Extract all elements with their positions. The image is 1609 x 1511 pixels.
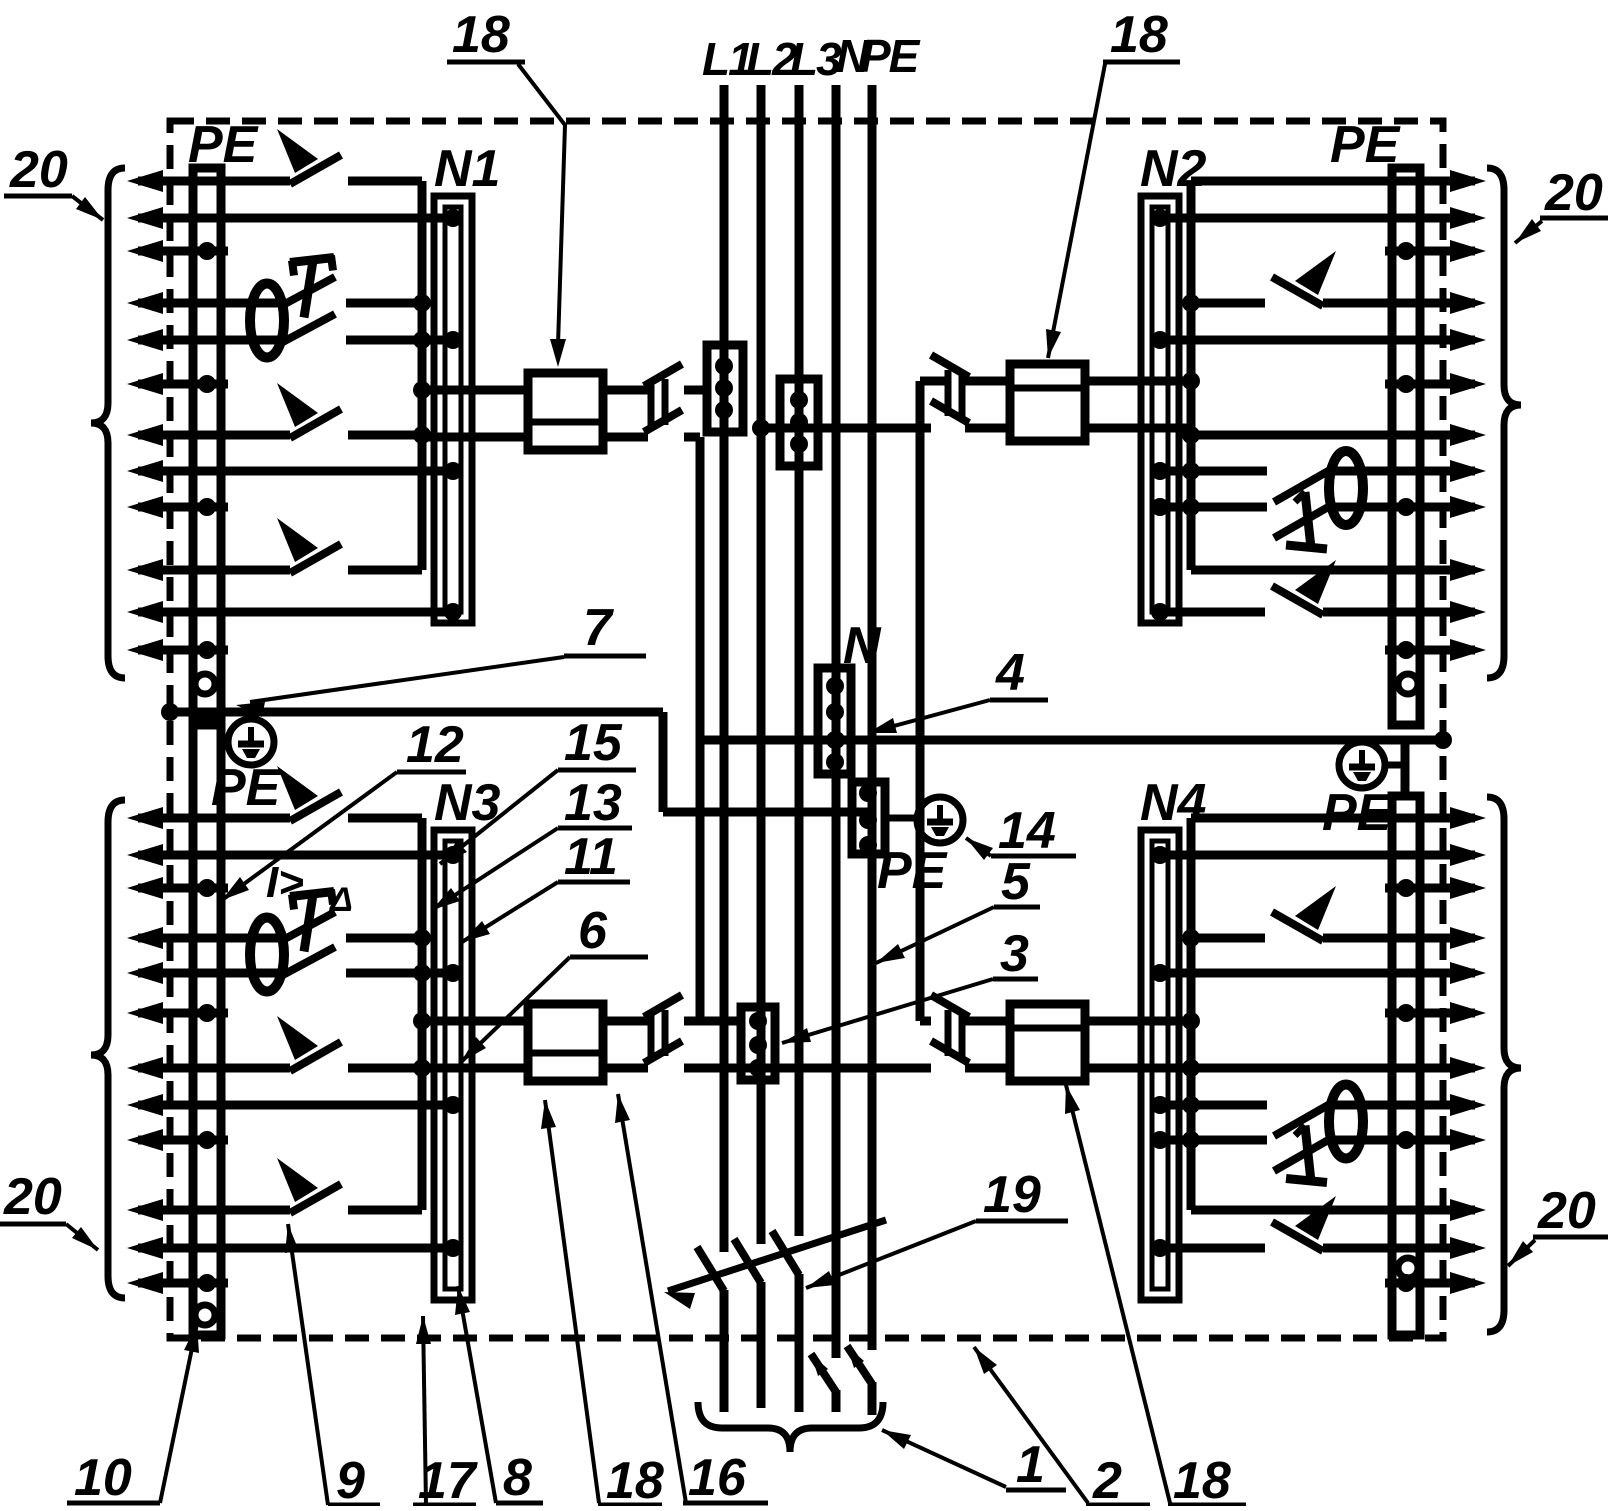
circuit breaker switch on row y=435 (top-left): [290, 409, 341, 438]
PE distribution block: [852, 782, 885, 854]
svg-text:3: 3: [1000, 925, 1029, 983]
brace bottom-right outgoing group: [1487, 797, 1521, 1332]
outgoing line wire row y=650 (top-right): [1450, 639, 1486, 661]
wire: bottom-left plug to bottom terminal block: [684, 1017, 741, 1026]
outgoing line wire row y=435 (top-right): [1450, 424, 1486, 446]
main switch blade on row y=340 (top-left): [281, 314, 335, 343]
outgoing line wire row y=1210 (bottom-right): [1450, 1199, 1486, 1221]
terminal block bottom (on L2): [741, 1007, 775, 1080]
detachable connector (top-left): [644, 364, 682, 386]
outgoing line wire row y=1013 (bottom-left): [127, 1002, 163, 1024]
switch linkage bar with handle arrow: [668, 1220, 886, 1291]
circuit breaker switch on row y=181 (top-left): [290, 155, 341, 184]
wire: left plug to L1 terminal block: [684, 386, 707, 395]
PE disconnect blade: [847, 1346, 872, 1384]
svg-text:Δ: Δ: [328, 881, 353, 919]
outgoing line wire row y=1283 (bottom-right): [1450, 1272, 1486, 1294]
svg-text:5: 5: [1001, 853, 1031, 911]
main switch blade on row y=938 (bottom-left): [281, 912, 335, 941]
main incoming switch blades (item 19): [697, 1247, 724, 1291]
detachable connector (top-right): [931, 355, 969, 377]
box feed wires (bottom-right): [1085, 1017, 1191, 1026]
connection box 18 (bottom-right): [1010, 1004, 1085, 1081]
bus L1 vertical: [720, 85, 729, 1252]
main switch blade on row y=973 (bottom-left): [281, 947, 335, 976]
outgoing line wire row y=181 (top-left): [127, 170, 163, 192]
connection box 18 (top-right): [1010, 364, 1085, 441]
outgoing line wire row y=1248 (bottom-right): [1450, 1237, 1486, 1259]
svg-text:1: 1: [1016, 1436, 1045, 1494]
svg-text:15: 15: [564, 714, 623, 772]
main switch coupling oval (top-right): [1329, 451, 1363, 525]
svg-text:9: 9: [336, 1452, 365, 1506]
svg-text:18: 18: [606, 1452, 664, 1506]
outgoing line wire row y=303 (top-left): [127, 292, 163, 314]
outgoing line wire row y=251 (top-right): [1450, 240, 1486, 262]
outgoing line wire row y=181 (top-right): [1450, 170, 1486, 192]
main switch blade on row y=1105 (bottom-right): [1274, 1104, 1330, 1136]
outgoing line wire row y=1013 (bottom-right): [1450, 1002, 1486, 1024]
PE riser corner down: [659, 712, 668, 812]
stub PE bar bottom-right up to N wire: [1401, 742, 1410, 796]
outgoing line wire row y=855 (bottom-right): [1450, 844, 1486, 866]
svg-text:12: 12: [406, 716, 464, 774]
svg-text:20: 20: [1544, 164, 1603, 222]
outgoing line wire row y=1283 (bottom-left): [127, 1272, 163, 1294]
svg-text:10: 10: [74, 1449, 132, 1506]
outgoing line wire row y=650 (top-left): [127, 639, 163, 661]
box feed wires (top-right): [1085, 377, 1191, 386]
neutral disconnect blade: [811, 1354, 836, 1392]
outgoing line wire row y=303 (top-right): [1450, 292, 1486, 314]
main switch blade on row y=507 (top-right): [1274, 506, 1330, 538]
brace top-left outgoing group: [91, 168, 125, 678]
svg-text:L1: L1: [702, 33, 752, 85]
PE busbar of bottom-left group panel: [193, 718, 221, 1335]
svg-text:PE: PE: [877, 842, 948, 900]
incoming cable brace (item 1): [698, 1402, 883, 1452]
svg-text:PE: PE: [188, 116, 259, 174]
svg-text:N: N: [843, 617, 882, 675]
outgoing line wire row y=612 (top-right): [1450, 601, 1486, 623]
main switch T-handle (bottom-left): [290, 892, 334, 897]
circuit breaker switch on row y=1248 (bottom-right): [1272, 1222, 1323, 1251]
main switch handle (bottom-right): [1305, 1126, 1311, 1182]
outgoing line wire row y=218 (top-right): [1450, 207, 1486, 229]
neutral busbar N2: [1141, 196, 1179, 623]
box feed wires (bottom-left): [422, 1017, 528, 1026]
outgoing line wire row y=1068 (bottom-right): [1450, 1057, 1486, 1079]
main switch blade on row y=303 (top-left): [281, 277, 335, 306]
svg-text:20: 20: [1537, 1182, 1596, 1240]
wire: N row horizontal across to right side: [700, 736, 1443, 745]
bus L2 vertical: [757, 85, 766, 1244]
outgoing line wire row y=1140 (bottom-right): [1450, 1129, 1486, 1151]
neutral busbar N3: [434, 830, 472, 1300]
phase feeder bus of bottom-left group: [418, 818, 427, 1210]
PE busbar of bottom-right group panel: [1392, 796, 1420, 1335]
outgoing line wire row y=855 (bottom-left): [127, 844, 163, 866]
wire: PE horizontal from top-left PE bar: [163, 708, 663, 717]
phase feeder bus of bottom-right group: [1187, 818, 1196, 1210]
cabinet enclosure dashed border (item 2): [170, 121, 1443, 1338]
wire: lower plug pin corner: [684, 433, 700, 442]
circuit breaker switch on row y=938 (bottom-right): [1272, 912, 1323, 941]
PE busbar of top-left group panel: [193, 168, 221, 725]
circuit breaker switch on row y=1068 (bottom-left): [290, 1042, 341, 1071]
outgoing line wire row y=507 (top-right): [1450, 496, 1486, 518]
wire: PE riser to PE block: [663, 808, 868, 817]
outgoing line wire row y=612 (top-left): [127, 601, 163, 623]
main switch blade on row y=1140 (bottom-right): [1274, 1139, 1330, 1171]
N distribution block: [818, 668, 851, 774]
main switch coupling oval (top-left): [250, 284, 284, 358]
brace bottom-left outgoing group: [91, 800, 125, 1298]
svg-text:N1: N1: [434, 140, 500, 198]
svg-text:11: 11: [564, 828, 618, 886]
svg-text:7: 7: [583, 599, 614, 657]
svg-text:2: 2: [1092, 1452, 1122, 1506]
main switch coupling oval (bottom-left): [250, 918, 284, 992]
svg-text:20: 20: [9, 141, 68, 199]
svg-text:13: 13: [564, 774, 622, 832]
outgoing line wire row y=471 (top-left): [127, 460, 163, 482]
terminal block on L3 (top): [780, 379, 818, 466]
outgoing line wire row y=570 (top-right): [1450, 559, 1486, 581]
phase feeder bus of top-left group: [418, 181, 427, 570]
outgoing line wire row y=938 (bottom-right): [1450, 927, 1486, 949]
outgoing line wire row y=507 (top-left): [127, 496, 163, 518]
outgoing line wire row y=938 (bottom-left): [127, 927, 163, 949]
outgoing line wire row y=1105 (bottom-left): [127, 1094, 163, 1116]
circuit breaker switch on row y=303 (top-right): [1272, 277, 1323, 306]
main switch handle (top-right): [1305, 492, 1311, 548]
svg-text:18: 18: [1173, 1452, 1231, 1506]
svg-text:19: 19: [983, 1166, 1041, 1224]
wire: right riser top stub: [920, 377, 948, 386]
phase feeder bus of top-right group: [1187, 181, 1196, 570]
svg-text:8: 8: [503, 1449, 532, 1506]
vertical riser right of buses: [916, 381, 925, 1021]
svg-text:16: 16: [688, 1449, 747, 1506]
bus PE vertical: [868, 85, 877, 1350]
svg-text:PE: PE: [1322, 784, 1393, 842]
outgoing line wire row y=1068 (bottom-left): [127, 1057, 163, 1079]
outgoing line wire row y=1105 (bottom-right): [1450, 1094, 1486, 1116]
outgoing line wire row y=384 (top-right): [1450, 373, 1486, 395]
outgoing line wire row y=1248 (bottom-left): [127, 1237, 163, 1259]
PE busbar of top-right group panel: [1392, 168, 1420, 725]
bus L3 vertical: [795, 85, 804, 1236]
outgoing line wire row y=888 (bottom-right): [1450, 877, 1486, 899]
connection box 18 (top-left): [528, 373, 603, 450]
outgoing line wire row y=471 (top-right): [1450, 460, 1486, 482]
outgoing line wire row y=384 (top-left): [127, 373, 163, 395]
outgoing line wire row y=818 (bottom-right): [1450, 807, 1486, 829]
svg-text:L3: L3: [790, 33, 842, 85]
svg-text:4: 4: [995, 644, 1025, 702]
outgoing line wire row y=818 (bottom-left): [127, 807, 163, 829]
wire: L2 through L3 block to right plug: [761, 424, 931, 433]
detachable connector (bottom-left): [644, 995, 682, 1017]
outgoing line wire row y=251 (top-left): [127, 240, 163, 262]
vertical from plug pin down to bottom-left plug: [696, 437, 705, 1021]
svg-text:20: 20: [3, 1168, 62, 1226]
circuit breaker switch on row y=1210 (bottom-left): [290, 1184, 341, 1213]
brace top-right outgoing group: [1487, 168, 1521, 678]
outgoing line wire row y=570 (top-left): [127, 559, 163, 581]
svg-text:PE: PE: [211, 759, 282, 817]
svg-text:6: 6: [578, 902, 608, 960]
outgoing line wire row y=888 (bottom-left): [127, 877, 163, 899]
circuit breaker switch on row y=818 (bottom-left): [290, 792, 341, 821]
neutral busbar N4: [1141, 830, 1179, 1300]
main switch coupling oval (bottom-right): [1329, 1085, 1363, 1159]
earth symbol at PE block (item 14): [917, 797, 963, 843]
earth symbol near top-left junction: [228, 719, 274, 765]
main switch T-handle (top-left): [290, 258, 334, 263]
svg-text:18: 18: [452, 6, 510, 64]
box feed wires (top-left): [422, 386, 528, 395]
detachable connector (bottom-right): [931, 995, 969, 1017]
circuit breaker switch on row y=570 (top-left): [290, 544, 341, 573]
connection box 18 (bottom-left): [528, 1004, 603, 1081]
outgoing line wire row y=435 (top-left): [127, 424, 163, 446]
svg-text:N4: N4: [1140, 774, 1207, 832]
outgoing line wire row y=973 (bottom-right): [1450, 962, 1486, 984]
terminal block on L1 (top): [707, 345, 743, 432]
svg-text:14: 14: [998, 802, 1056, 860]
outgoing line wire row y=1210 (bottom-left): [127, 1199, 163, 1221]
earth symbol right side: [1339, 742, 1385, 788]
wire: riser to bottom-right plug: [920, 1017, 931, 1026]
wire: bottom lower wire through terminal block to right plug: [684, 1064, 931, 1073]
svg-text:N2: N2: [1140, 140, 1207, 198]
outgoing line wire row y=340 (top-right): [1450, 329, 1486, 351]
svg-text:PE: PE: [1330, 116, 1401, 174]
outgoing line wire row y=340 (top-left): [127, 329, 163, 351]
bus N vertical: [832, 85, 841, 1358]
circuit breaker switch on row y=612 (top-right): [1272, 586, 1323, 615]
main switch blade on row y=471 (top-right): [1274, 470, 1330, 502]
outgoing line wire row y=1140 (bottom-left): [127, 1129, 163, 1151]
svg-text:18: 18: [1110, 6, 1168, 64]
outgoing line wire row y=973 (bottom-left): [127, 962, 163, 984]
svg-text:PE: PE: [860, 30, 921, 82]
neutral busbar N1: [434, 196, 472, 623]
outgoing line wire row y=218 (top-left): [127, 207, 163, 229]
